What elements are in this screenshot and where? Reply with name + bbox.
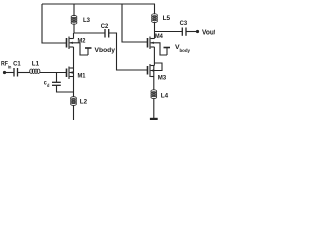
- svg-text:M2: M2: [78, 37, 87, 44]
- svg-text:Vbody: Vbody: [95, 47, 116, 54]
- svg-text:C1: C1: [13, 61, 21, 68]
- svg-text:L5: L5: [163, 15, 171, 22]
- svg-text:L4: L4: [161, 93, 169, 100]
- svg-text:d: d: [47, 83, 50, 88]
- svg-text:M1: M1: [78, 72, 87, 79]
- svg-text:Vout: Vout: [202, 27, 215, 36]
- svg-text:L1: L1: [32, 60, 40, 67]
- svg-text:L3: L3: [83, 17, 91, 24]
- svg-text:C3: C3: [180, 20, 188, 27]
- svg-text:M3: M3: [158, 74, 167, 81]
- svg-text:L2: L2: [80, 98, 88, 105]
- svg-text:in: in: [8, 64, 12, 69]
- svg-text:M4: M4: [155, 33, 164, 40]
- svg-text:C2: C2: [101, 23, 109, 30]
- svg-text:body: body: [180, 48, 191, 53]
